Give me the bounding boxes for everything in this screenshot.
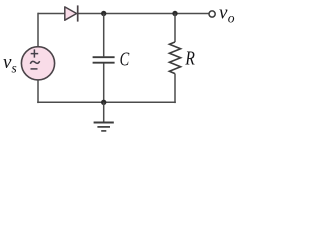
wire: resistor bottom lead <box>174 74 176 104</box>
node: top junction of resistor branch <box>172 11 177 16</box>
resistor R <box>169 42 180 74</box>
node: bottom junction at ground <box>101 100 106 105</box>
wire: ground stub <box>103 102 105 122</box>
wire: capacitor top lead <box>103 14 105 57</box>
wire: resistor top lead <box>174 14 176 43</box>
wire: top rail right segment (diode cathode to output terminal) <box>78 13 209 15</box>
label R <box>185 48 195 69</box>
node: top junction of capacitor branch <box>101 11 106 16</box>
capacitor C <box>93 57 115 63</box>
svg-text:R: R <box>185 48 195 69</box>
label C <box>120 50 130 71</box>
wire: left vertical from top rail down to source <box>37 13 39 47</box>
svg-text:o: o <box>228 11 235 26</box>
svg-text:s: s <box>12 61 17 76</box>
wire: left vertical from source down to bottom rail <box>37 80 39 103</box>
terminal: output vo (open circle) <box>209 11 215 17</box>
voltage source vs <box>21 47 54 80</box>
wire: top rail left segment (source top corner to diode anode) <box>38 13 65 15</box>
ground <box>94 123 114 131</box>
svg-text:C: C <box>120 50 130 71</box>
diode D1 <box>65 5 78 21</box>
wire: capacitor bottom lead <box>103 64 105 104</box>
svg-text:v: v <box>219 2 228 23</box>
wire: bottom rail <box>37 101 176 103</box>
label vo <box>219 2 235 25</box>
label vs <box>3 52 17 76</box>
